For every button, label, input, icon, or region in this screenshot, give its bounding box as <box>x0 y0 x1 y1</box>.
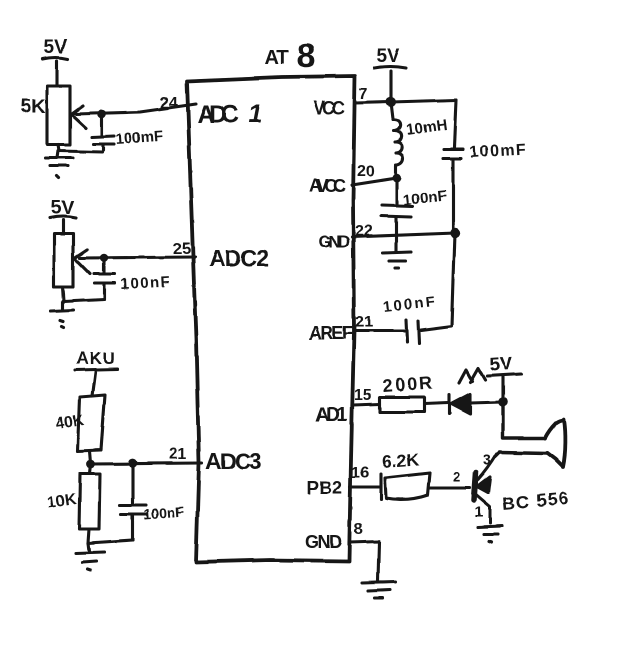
wire R6 to Q1 base <box>430 486 470 489</box>
svg-text:GND: GND <box>318 232 350 251</box>
svg-text:AVCC: AVCC <box>309 176 346 196</box>
wire D1 to 5V node <box>470 402 503 403</box>
wire wiper R1 to pin24 ADC1 <box>76 104 196 114</box>
wire 5V to pot R2 <box>61 220 64 233</box>
ground (R1) <box>45 151 73 178</box>
node AVCC junction <box>393 174 402 183</box>
svg-text:8: 8 <box>297 37 316 75</box>
svg-text:AT: AT <box>265 47 289 69</box>
label 100nF (C6) <box>383 294 436 316</box>
pin label 1 (Q1 collector) <box>475 504 483 521</box>
capacitor C5 100nF <box>381 178 413 235</box>
ground (Q1 collector) <box>478 526 502 542</box>
pin label 2 (Q1 base) <box>453 469 461 485</box>
pin label 7 <box>359 86 368 103</box>
pin label GND (pin8) <box>305 532 342 552</box>
label 5K <box>20 96 46 118</box>
wire node A to pin21 ADC3 <box>91 463 202 464</box>
pin label 22 <box>355 223 373 240</box>
wire pin22 GND to rail <box>352 233 455 237</box>
svg-text:25: 25 <box>173 241 191 258</box>
ground (R2) <box>51 301 74 327</box>
wire emitter to speaker lead <box>496 452 500 456</box>
label 100mF (C4) <box>469 141 526 161</box>
wire rail GND to AREF cap <box>421 233 455 330</box>
potentiometer R2 <box>54 234 90 287</box>
wire pin15 AD1 <box>353 404 380 405</box>
label 100mF (C1) <box>115 128 164 148</box>
wire pin16 PB2 <box>350 485 380 488</box>
wire wiper R2 to pin25 ADC2 <box>80 257 195 258</box>
wire 5V down to node <box>501 377 504 402</box>
label 10mH <box>405 116 448 139</box>
wire 5V to VCC node <box>389 71 392 101</box>
capacitor C2 100nF <box>94 258 115 299</box>
pin label 25 <box>173 241 191 258</box>
svg-text:21: 21 <box>169 446 187 463</box>
resistor R6 6.2K <box>381 473 430 499</box>
node diode/speaker junction <box>498 397 508 407</box>
svg-text:GND: GND <box>305 532 342 552</box>
pin label 15 <box>354 387 372 404</box>
wire C2 bottom to R2 bottom <box>63 287 104 301</box>
pin label 8 <box>354 521 363 538</box>
ground (pin22) <box>383 235 411 268</box>
wire AKU to R3 <box>92 372 95 396</box>
transistor Q1 BC556 <box>474 454 497 523</box>
svg-text:5V: 5V <box>376 46 400 67</box>
pin label 3 (Q1 emitter) <box>483 452 491 469</box>
wire speaker top lead <box>503 436 545 439</box>
capacitor C3 100nF <box>120 463 146 540</box>
capacitor C4 100mF <box>443 149 463 232</box>
pin label ADC1 <box>197 100 262 129</box>
node junction R2/C2 <box>100 254 109 263</box>
op IC body U1 AT8 <box>187 76 355 562</box>
svg-text:5V: 5V <box>44 37 68 58</box>
pin label 21 (ADC3) <box>169 446 187 463</box>
svg-text:1: 1 <box>475 504 483 521</box>
label 40K <box>54 412 86 433</box>
supply 5V (diode) <box>487 353 521 376</box>
speaker SP1 horn <box>545 419 565 467</box>
label 200R <box>382 373 433 396</box>
svg-text:20: 20 <box>357 163 375 180</box>
node VCC junction <box>386 97 396 107</box>
svg-text:ADC3: ADC3 <box>205 448 262 474</box>
svg-text:ADC: ADC <box>197 101 239 129</box>
svg-text:2: 2 <box>453 469 461 485</box>
svg-text:16: 16 <box>351 465 369 482</box>
svg-text:6.2K: 6.2K <box>381 449 420 472</box>
pin label GND (pin22) <box>318 232 350 251</box>
svg-text:100nF: 100nF <box>143 503 185 522</box>
pin label ADC2 <box>209 245 269 271</box>
svg-text:7: 7 <box>359 86 368 103</box>
label BC556 <box>502 488 569 514</box>
svg-text:PB2: PB2 <box>307 478 342 498</box>
supply 5V (top-left) <box>43 37 68 59</box>
supply 5V (mid-left) <box>50 198 76 219</box>
label AT8 <box>265 37 316 75</box>
svg-text:5K: 5K <box>20 96 46 118</box>
svg-text:VCC: VCC <box>313 98 345 118</box>
svg-text:21: 21 <box>355 314 373 331</box>
pin label AREF <box>309 323 353 343</box>
ground (pin8) <box>362 582 396 598</box>
svg-text:200R: 200R <box>382 373 433 396</box>
inductor L1 10mH <box>391 102 404 177</box>
svg-text:AREF: AREF <box>309 323 353 343</box>
supply AKU <box>75 349 117 370</box>
capacitor C1 100nF <box>92 114 114 150</box>
wire node down to speaker <box>501 402 504 437</box>
resistor R5 200R <box>380 397 424 412</box>
svg-text:100mF: 100mF <box>469 141 526 161</box>
wire right rail top <box>454 100 456 147</box>
node A junction <box>87 460 96 469</box>
svg-text:3: 3 <box>483 452 491 469</box>
pin label 24 <box>160 95 178 112</box>
svg-text:100nF: 100nF <box>120 273 170 293</box>
resistor R4 10K <box>79 464 100 529</box>
svg-text:ADC2: ADC2 <box>209 245 269 271</box>
node GND rail junction <box>450 228 460 238</box>
svg-text:15: 15 <box>354 387 372 404</box>
wire C3 bottom to R4 bottom <box>88 529 133 543</box>
label 6.2K <box>381 449 420 472</box>
pin label AD1 <box>315 404 348 426</box>
label 100nF (C3) <box>143 503 185 522</box>
pin label 16 <box>351 465 369 482</box>
pin label 21 (AREF) <box>355 314 373 331</box>
diode D1 <box>449 394 470 414</box>
node junction C3 <box>129 459 138 468</box>
pin label VCC <box>313 98 345 118</box>
pin label PB2 <box>307 478 342 498</box>
wire C1 bottom to R1 bottom <box>58 145 102 152</box>
pin label 20 <box>357 163 375 180</box>
supply 5V (VCC) <box>374 46 406 68</box>
label 100nF (C5) <box>403 188 448 209</box>
svg-text:8: 8 <box>354 521 363 538</box>
label 100nF (C2) <box>120 273 170 293</box>
ground (R4) <box>76 543 104 570</box>
resistor R3 40K <box>78 395 105 451</box>
label 10K <box>46 491 78 512</box>
pin label AVCC <box>309 176 346 196</box>
wire R5 to D1 <box>424 403 448 404</box>
label diode mark <box>459 368 485 383</box>
node junction R1/C1 <box>98 110 107 119</box>
wire 5V to pot R1 <box>55 61 58 85</box>
pin label ADC3 <box>205 448 262 474</box>
wire pin20 AVCC <box>352 178 397 185</box>
wire pin8 GND <box>349 541 379 581</box>
capacitor C6 100nF (AREF) <box>354 320 419 343</box>
svg-text:AD1: AD1 <box>315 404 348 426</box>
wire speaker bottom lead <box>500 452 547 453</box>
wire R3 to node A <box>90 451 91 463</box>
svg-text:1: 1 <box>248 100 262 128</box>
wire pin7 VCC <box>355 102 391 103</box>
potentiometer R1 5K <box>47 86 86 145</box>
svg-text:AKU: AKU <box>76 349 116 368</box>
svg-text:100mF: 100mF <box>115 128 164 148</box>
wire VCC node to right rail <box>391 100 456 102</box>
svg-text:5V: 5V <box>489 353 514 376</box>
